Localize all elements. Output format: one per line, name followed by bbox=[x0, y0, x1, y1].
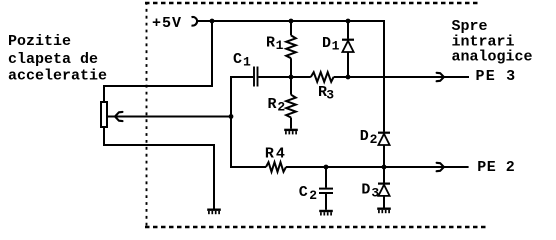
wire PE2 rail to output arrowhead bbox=[384, 166, 443, 168]
svg-text:Pozitie: Pozitie bbox=[8, 33, 71, 50]
PE2 output arrowhead bbox=[437, 163, 444, 171]
wire wiper node up to C1 left plate bbox=[231, 77, 253, 117]
wire R2 top lead bbox=[290, 77, 292, 95]
junction dot D2/D3 node bbox=[382, 165, 387, 170]
svg-text:2: 2 bbox=[370, 132, 378, 147]
dashed enclosure bottom border bbox=[145, 226, 487, 228]
diode D3 (cathode bar + triangle) bbox=[378, 184, 390, 196]
junction dot C2 top node bbox=[324, 165, 329, 170]
svg-text:3: 3 bbox=[371, 186, 379, 201]
wire R3 to D1 bottom node bbox=[334, 76, 348, 78]
wire D1 bottom lead bbox=[347, 52, 349, 77]
svg-text:PE 3: PE 3 bbox=[476, 68, 517, 85]
junction dot R1 top bbox=[289, 19, 294, 24]
dashed enclosure top border bbox=[145, 2, 478, 4]
diode D2 (cathode bar + triangle) bbox=[378, 133, 390, 145]
wire PE2 stub after arrowhead bbox=[445, 166, 469, 168]
wire R1 top lead bbox=[290, 21, 292, 35]
dashed enclosure left border bbox=[146, 2, 148, 228]
ground (potentiometer return) bbox=[207, 210, 221, 215]
capacitor C2 bbox=[319, 189, 333, 193]
wire D1 top lead bbox=[347, 21, 349, 39]
wire C1 right plate to mid-rail junction bbox=[259, 76, 292, 78]
svg-text:PE 2: PE 2 bbox=[477, 159, 515, 176]
junction dot wiper node bbox=[229, 114, 234, 119]
junction dot mid rail at R1 bbox=[289, 75, 294, 80]
svg-text:R: R bbox=[266, 34, 275, 51]
ground (D3) bbox=[377, 209, 391, 214]
wire R2 bottom lead bbox=[290, 118, 292, 129]
ground (R2) bbox=[284, 130, 298, 135]
svg-text:4: 4 bbox=[276, 145, 285, 162]
svg-text:R: R bbox=[265, 145, 274, 162]
svg-text:+5V: +5V bbox=[152, 15, 182, 32]
svg-text:acceleratie: acceleratie bbox=[8, 68, 107, 85]
wiper arrowhead (points left into pot) bbox=[115, 112, 123, 121]
wire wiper node down to R4 bbox=[231, 117, 266, 168]
svg-text:2: 2 bbox=[277, 99, 285, 114]
svg-text:D: D bbox=[360, 128, 369, 145]
svg-text:D: D bbox=[361, 181, 370, 198]
ground (C2) bbox=[319, 211, 333, 216]
+5V connector terminal (open arc) bbox=[192, 17, 198, 26]
junction dot +5V / pot feed bbox=[210, 19, 215, 24]
label "Pozitie clapeta de acceleratie" bbox=[8, 33, 107, 85]
wire R1 bottom lead bbox=[290, 58, 292, 77]
wire +5V rail down-left to potentiometer top bbox=[104, 21, 212, 102]
wire D3 bottom lead bbox=[383, 196, 385, 208]
label "Spre intrari analogice" bbox=[452, 18, 533, 66]
wire wiper to junction node bbox=[108, 116, 231, 118]
wire D2 to PE2 node bbox=[383, 145, 385, 167]
svg-text:1: 1 bbox=[332, 38, 340, 53]
svg-text:C: C bbox=[299, 184, 308, 201]
wire C2 top lead bbox=[325, 167, 327, 188]
wire mid rail R1 node to R3 bbox=[291, 76, 311, 78]
potentiometer body bbox=[101, 102, 107, 127]
junction dot D1 top bbox=[346, 19, 351, 24]
wire mid rail to PE3 output (crosses D2 drop, no junction) bbox=[348, 76, 443, 78]
resistor R1 bbox=[286, 35, 296, 58]
wire C2 node to D2/D3 node bbox=[326, 166, 384, 168]
svg-text:1: 1 bbox=[276, 38, 284, 53]
junction dot D1 bottom / mid rail bbox=[346, 75, 351, 80]
wire PE2 node to D3 bbox=[383, 167, 385, 183]
capacitor C1 bbox=[254, 67, 258, 87]
wire potentiometer bottom to ground bbox=[104, 128, 214, 209]
wire R4 to C2 node bbox=[286, 166, 326, 168]
wire PE3 stub after arrowhead bbox=[445, 76, 470, 78]
svg-text:3: 3 bbox=[326, 88, 334, 103]
svg-text:2: 2 bbox=[309, 188, 317, 203]
resistor R2 bbox=[286, 95, 296, 118]
svg-text:C1: C1 bbox=[233, 51, 251, 70]
diode D1 (cathode bar + triangle) bbox=[342, 40, 354, 52]
svg-text:clapeta de: clapeta de bbox=[8, 51, 98, 68]
svg-text:analogice: analogice bbox=[452, 49, 533, 66]
resistor R4 bbox=[266, 162, 286, 172]
wire +5V top rail with right-corner drop to D2 (crosses PE3 line, no junction) bbox=[197, 21, 385, 132]
PE3 output arrowhead bbox=[437, 73, 444, 81]
svg-text:D: D bbox=[322, 35, 331, 52]
resistor R3 bbox=[311, 72, 334, 82]
svg-text:R: R bbox=[268, 96, 277, 113]
wire C2 bottom lead bbox=[325, 194, 327, 210]
